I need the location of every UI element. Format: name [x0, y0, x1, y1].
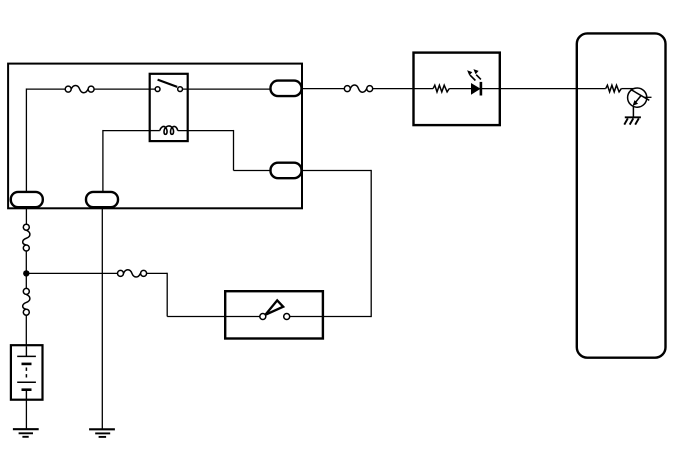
wire LED box to module — [500, 88, 606, 90]
wire switch to riser — [290, 170, 372, 317]
node junction dot — [23, 270, 29, 276]
wire fuse F5 to switch box — [147, 273, 260, 317]
chassis ground — [624, 117, 641, 124]
LED module box — [414, 53, 500, 126]
switch box — [225, 291, 323, 338]
wire top inside main box — [26, 88, 155, 192]
switch contact right — [284, 314, 290, 320]
wire coil left branch — [103, 130, 160, 192]
fuse F2 — [344, 85, 372, 92]
fuse F4 (vertical) — [23, 288, 30, 315]
switch lever — [265, 300, 283, 314]
resistor R1 — [433, 85, 449, 92]
resistor R2 — [606, 85, 622, 92]
connector oval lower right — [271, 163, 302, 179]
wire coil right branch — [178, 130, 371, 171]
transistor emitter lead — [632, 106, 634, 118]
transistor emitter arrowhead — [633, 100, 639, 106]
relay box — [150, 74, 188, 141]
LED arrow 1 — [467, 70, 475, 80]
wire resistor to transistor — [621, 88, 634, 90]
wire fuse F4 to battery — [25, 315, 27, 345]
wire fuse F3 to node — [25, 251, 27, 291]
wire relay to upper oval — [183, 88, 346, 91]
transistor Q1 — [628, 88, 652, 107]
LED arrow 2 — [473, 69, 481, 79]
wire oval1 down to fuse chain — [25, 207, 27, 224]
LED D1 — [471, 83, 481, 95]
switch contact left — [260, 314, 266, 320]
relay switch blade — [158, 80, 178, 87]
connector oval bottom left 1 — [11, 192, 43, 207]
connector oval bottom left 2 — [86, 192, 118, 207]
ground middle — [89, 429, 115, 437]
connector oval upper right — [271, 81, 302, 97]
fuse F3 (vertical) — [23, 224, 30, 251]
wire fuse F2 to LED box — [373, 88, 414, 90]
relay switch contact right — [178, 87, 183, 92]
relay coil — [160, 126, 178, 134]
battery box — [11, 345, 43, 400]
relay switch contact left — [155, 87, 160, 92]
battery cells — [17, 346, 36, 399]
wire battery to ground — [25, 400, 27, 430]
wire oval2 down to ground — [101, 207, 103, 429]
wire inside LED box — [414, 88, 500, 90]
wire node to fuse F5 — [26, 272, 117, 274]
control module rounded box — [577, 33, 666, 357]
fuse F1 — [65, 86, 94, 93]
main box (junction block) — [8, 64, 302, 209]
ground left — [13, 429, 39, 437]
fuse F5 — [118, 270, 147, 277]
